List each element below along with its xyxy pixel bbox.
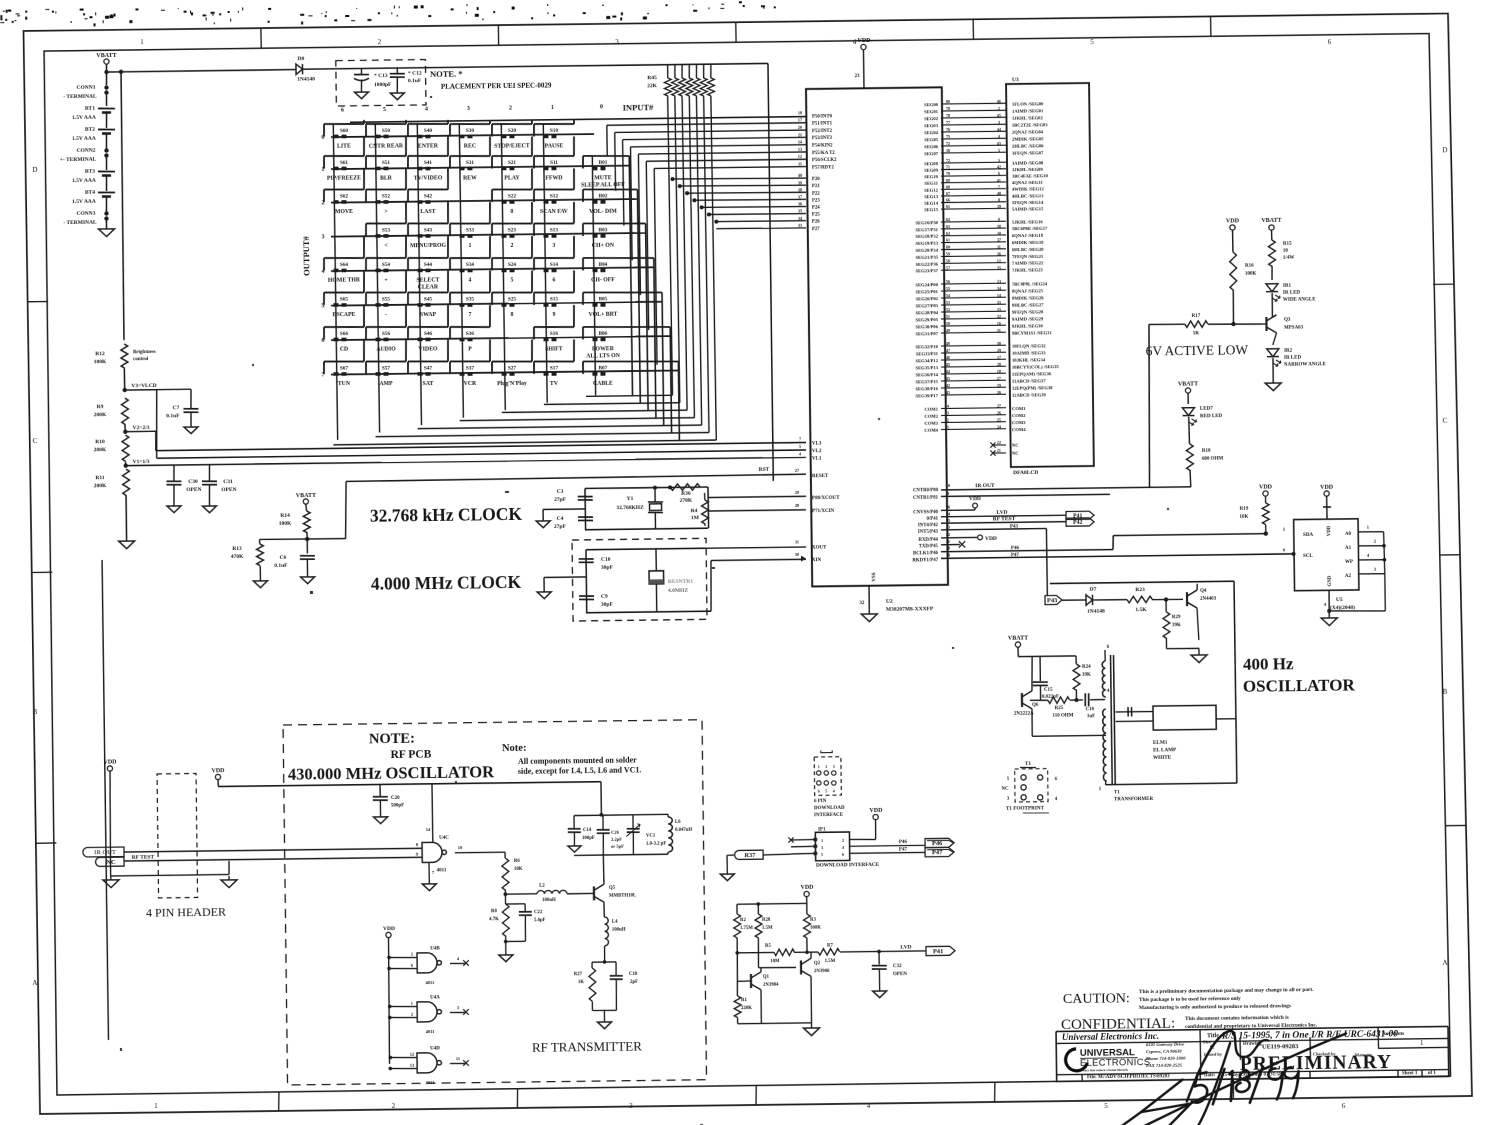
svg-text:1: 1 [411,1001,413,1006]
svg-text:5: 5 [825,789,827,793]
svg-text:S10: S10 [550,128,559,134]
node V3=VLCD [122,388,126,392]
svg-text:P27: P27 [812,227,820,232]
svg-text:100K: 100K [1245,272,1257,277]
svg-text:Q2: Q2 [814,961,821,966]
switch S11 FFWD [534,136,575,181]
svg-text:11: 11 [997,244,1001,249]
transistor Q6 2N2222A [1021,693,1023,707]
svg-text:P22: P22 [812,191,820,196]
svg-text:XOUT: XOUT [812,545,827,550]
svg-text:SEG27/P03: SEG27/P03 [916,303,939,308]
svg-text:SEG16/P30: SEG16/P30 [915,220,938,225]
svg-text:1uF: 1uF [1087,714,1095,719]
wire matrix column 1 vertical [543,124,547,403]
wire output net to MCU P20 [673,177,806,179]
svg-text:CAUTION:: CAUTION: [1063,991,1130,1007]
transformer core lines [1111,655,1113,785]
svg-text:27: 27 [795,468,799,473]
svg-text:R25: R25 [1055,706,1064,711]
svg-text:27: 27 [997,376,1001,381]
svg-text:C7: C7 [173,405,180,411]
resistor R29 39K [1165,600,1167,612]
wire matrix column 0 vertical [592,156,595,395]
svg-text:3: 3 [821,845,823,850]
switch S56 AUDIO [366,305,407,353]
pullup column 3 [688,65,690,78]
wire XCIN to MCU pin 28 [708,510,806,511]
svg-text:V3=VLCD: V3=VLCD [131,383,157,389]
svg-text:MUTE: MUTE [594,175,612,181]
svg-text:32.768KHZ: 32.768KHZ [616,505,644,511]
switch S30 REC [450,120,491,150]
transistor Q3 MPSA63 [1265,317,1267,331]
svg-text:7: 7 [998,184,1000,189]
svg-text:ESCAPE: ESCAPE [333,312,356,318]
svg-text:10JKHL /SEG34: 10JKHL /SEG34 [1012,357,1046,362]
svg-text:RXD/P44: RXD/P44 [918,538,938,543]
switch S54 + [366,236,407,284]
svg-text:2: 2 [509,105,512,111]
svg-text:P46: P46 [1011,546,1020,551]
svg-text:19: 19 [946,552,950,557]
wire RST line to MCU pin 27 [346,474,806,481]
IP1 left pin wires [791,839,815,842]
svg-text:HOME THR: HOME THR [328,277,361,283]
wire output net to MCU P21 [680,184,806,186]
svg-text:10K: 10K [514,867,523,872]
svg-text:SCAN FAV: SCAN FAV [540,209,569,215]
svg-text:VBATT: VBATT [1261,218,1281,224]
svg-text:R7: R7 [827,943,834,948]
svg-text:30pF: 30pF [601,602,614,608]
svg-text:CNTR1/P81: CNTR1/P81 [913,496,939,501]
handwritten date 5/18/99 [1191,1067,1298,1104]
Q6 emitter to transformer [1031,709,1033,736]
NAND gate U4B 4011 [417,953,437,973]
svg-text:SEG36/P14: SEG36/P14 [915,372,938,377]
wire staircase bottom 5 [376,433,709,437]
svg-text:P47: P47 [899,847,908,852]
wire staircase bottom 1 [544,403,680,405]
NAND gate U4C 4011 [422,842,442,862]
svg-text:TRANSFORMER: TRANSFORMER [1114,797,1154,802]
svg-text:VDD: VDD [1259,484,1273,490]
svg-text:B02: B02 [599,193,608,199]
svg-text:26: 26 [997,410,1001,415]
svg-text:20: 20 [798,125,802,130]
svg-text:76: 76 [946,127,950,132]
svg-text:26: 26 [997,390,1001,395]
svg-text:4: 4 [842,845,844,850]
svg-text:4.0MHZ: 4.0MHZ [668,588,688,594]
svg-text:NARROW ANGLE: NARROW ANGLE [1284,362,1327,368]
wire VL2 line from V3 [157,450,806,458]
svg-text:AUDIO: AUDIO [376,346,396,352]
resistor R6 10K [504,852,506,858]
IR LED IR1 wide angle [1266,284,1278,292]
EL loop bottom rail [1105,783,1236,785]
svg-text:1: 1 [140,38,144,46]
transistor Q2 2N3906 [800,960,802,974]
svg-text:R1: R1 [741,998,748,1003]
svg-text:0: 0 [600,104,603,110]
ground below RF output [597,1022,611,1029]
svg-text:S65: S65 [340,296,349,302]
svg-text:R19: R19 [1240,507,1249,512]
svg-text:SEG32/P10: SEG32/P10 [915,344,938,349]
microcontroller U2 M38207M8-XXXFP [805,37,948,622]
svg-text:T1 FOOTPRINT: T1 FOOTPRINT [1006,806,1045,812]
NAND gate U4A 4011 [417,1002,437,1022]
svg-text:RST: RST [759,467,770,473]
svg-text:IR LED: IR LED [1283,291,1301,296]
svg-text:VBATT: VBATT [1178,381,1198,387]
switch S21 PLAY [492,137,533,182]
svg-text:1FLON /SEG00: 1FLON /SEG00 [1012,101,1044,106]
svg-text:R24: R24 [1082,665,1091,670]
svg-text:COM2: COM2 [1012,413,1026,418]
svg-text:SEG12: SEG12 [924,187,939,192]
resistor R4 1M [701,500,708,524]
svg-text:CLEAR: CLEAR [418,284,439,290]
resistor R18 680 OHM [1186,444,1193,470]
svg-text:1JKHL /SEG02: 1JKHL /SEG02 [1012,115,1044,120]
svg-text:CABLE: CABLE [593,381,613,387]
svg-text:SDA: SDA [1303,533,1313,538]
svg-text:SEG34/P12: SEG34/P12 [916,358,939,363]
svg-text:6: 6 [552,278,555,284]
svg-text:1: 1 [469,243,472,249]
capacitor C20 500pF [379,784,381,796]
svg-text:S45: S45 [424,296,433,302]
svg-text:S50: S50 [382,128,391,134]
svg-text:100K: 100K [94,359,107,365]
svg-text:IR LED: IR LED [1284,356,1302,361]
svg-text:A: A [32,979,37,987]
svg-text:MOVE: MOVE [335,209,353,215]
svg-text:R15: R15 [1283,242,1292,247]
svg-text:27pF: 27pF [554,497,567,503]
svg-text:SEG38/P16: SEG38/P16 [915,386,938,391]
switch S27 Plug'N'Play [492,340,533,388]
svg-text:P71/XCIN: P71/XCIN [812,509,835,514]
svg-text:44: 44 [946,369,950,374]
svg-text:1/4W: 1/4W [1283,256,1294,261]
switch S65 ESCAPE [324,271,365,319]
wire channel vertical 5 [638,154,640,295]
svg-text:1: 1 [947,424,949,429]
svg-text:4WDIK /SEG12: 4WDIK /SEG12 [1012,186,1045,191]
RF tank top rail [574,814,668,815]
svg-text:SEG24/P00: SEG24/P00 [915,282,938,287]
svg-text:37: 37 [798,194,802,199]
svg-text:+- TERMINAL: +- TERMINAL [60,157,97,163]
svg-text:or 5pF: or 5pF [611,844,624,849]
wire VL3 line from V2 [156,442,806,450]
capacitor C30 OPEN [173,465,175,481]
wire matrix row0 top rail to MCU P50 [350,117,806,123]
switch S35 7 [450,271,491,319]
EL loop right rail [1234,581,1237,783]
svg-text:U4A: U4A [430,995,440,1000]
svg-text:18: 18 [997,369,1001,374]
svg-text:3AIMD /SEG08: 3AIMD /SEG08 [1012,160,1044,165]
svg-text:P42: P42 [1073,520,1082,526]
MCU VSS ground [868,587,870,614]
svg-text:22: 22 [946,532,950,537]
4MHz dashed box [572,538,707,621]
EL lamp ELM1 box [1153,705,1216,730]
wire VBATT top rail [104,70,108,74]
switch S25 8 [492,271,533,319]
wire rail drop to RST line [768,63,773,481]
svg-text:2.2pF: 2.2pF [611,837,622,842]
svg-text:+: + [384,277,387,283]
svg-text:VSS: VSS [872,572,877,581]
svg-text:S67: S67 [340,365,349,371]
svg-text:DOWNLOAD INTERFACE: DOWNLOAD INTERFACE [816,862,880,869]
wire matrix row 7 line [331,370,678,375]
wire channel vertical 4 [630,147,632,260]
svg-text:5: 5 [799,444,801,449]
switch S17 TV [534,339,575,387]
svg-text:CH+ ON: CH+ ON [592,243,615,249]
capacitor C15 0.022uF [1039,656,1041,681]
resistor R16 100K [1230,252,1237,290]
wire XIN to MCU pin 30 [710,560,711,611]
trimmer capacitor VC1 [632,815,634,828]
svg-text:S35: S35 [466,296,475,302]
svg-text:U4B: U4B [430,946,440,951]
wire input row net 5 to MCU P55 [638,152,806,154]
wire staircase bottom 4 [418,425,702,429]
svg-text:4: 4 [853,38,857,46]
capacitor C4 27pF [578,516,593,518]
svg-text:S13: S13 [550,227,559,233]
svg-text:2: 2 [998,106,1000,111]
diode D8 1N4148 [296,64,303,74]
svg-text:V1=1/3: V1=1/3 [133,459,150,465]
resistor R23 1.5K [1127,596,1152,603]
svg-text:9: 9 [947,491,949,496]
svg-text:U3: U3 [1012,77,1019,83]
LVD middle row with R5 10M and R7 1.5M [736,938,738,953]
tag P43 into D7 [1045,595,1062,604]
svg-text:WHITE: WHITE [1153,755,1172,761]
svg-text:POWER: POWER [592,346,615,352]
node V1=1/3 [124,463,128,467]
svg-text:10K: 10K [1240,515,1249,520]
svg-text:R36: R36 [681,491,691,497]
svg-text:S51: S51 [382,160,391,166]
ground below battery stack [98,229,114,237]
svg-text:SEG23/P37: SEG23/P37 [915,268,938,273]
LVD top rail [737,902,807,905]
LCD connector U3 DFA8LCD [1006,83,1094,467]
svg-text:COM1: COM1 [924,407,938,412]
svg-text:TXD/P45: TXD/P45 [919,544,939,549]
svg-text:T1: T1 [1025,761,1032,767]
svg-text:1: 1 [821,838,823,843]
Q6 collector to rail [1032,656,1033,691]
svg-text:P54/KIN2: P54/KIN2 [812,143,833,148]
svg-text:VOL- DIM: VOL- DIM [589,209,617,215]
wire matrix column 5 vertical [375,124,379,433]
svg-text:2: 2 [511,243,514,249]
svg-text:Q6: Q6 [1032,703,1039,708]
svg-text:S47: S47 [424,365,433,371]
svg-text:COM1: COM1 [1012,406,1026,411]
svg-text:75: 75 [946,134,950,139]
switch S15 9 [534,270,575,318]
Q6 oscillator top rail [1018,655,1076,658]
svg-text:RESNTR1: RESNTR1 [668,579,693,585]
svg-text:CONN2: CONN2 [76,148,95,154]
svg-text:6: 6 [998,171,1000,176]
svg-text:0.022uF: 0.022uF [1042,695,1059,700]
svg-text:45: 45 [946,362,950,367]
svg-text:VDD: VDD [857,38,871,44]
wire XCOUT to MCU pin 29 [708,496,806,497]
svg-text:R37: R37 [744,852,755,859]
svg-text:C30: C30 [188,479,198,485]
svg-text:1.75M: 1.75M [740,926,753,931]
svg-text:WP: WP [1345,560,1353,565]
svg-text:SEG13: SEG13 [924,194,939,199]
svg-text:6HLBC /SEG20: 6HLBC /SEG20 [1012,247,1044,252]
svg-text:C18: C18 [629,972,638,977]
svg-text:40: 40 [997,191,1001,196]
svg-text:26: 26 [946,504,950,509]
svg-text:4: 4 [947,403,949,408]
svg-text:INT5/P43: INT5/P43 [918,530,939,535]
svg-text:Universal Electronics Inc.: Universal Electronics Inc. [1062,1031,1159,1042]
svg-text:11: 11 [456,1056,460,1061]
svg-text:4011: 4011 [426,1029,436,1034]
svg-text:PRELIMINARY: PRELIMINARY [1240,1052,1392,1075]
svg-text:S25: S25 [508,296,517,302]
svg-text:C6: C6 [280,555,287,561]
svg-text:6: 6 [842,852,844,857]
wire R17 to IR OUT line [1147,324,1151,487]
svg-text:D: D [1442,146,1447,154]
resistor R12 100K brightness [121,344,128,368]
svg-text:4: 4 [867,1102,871,1110]
svg-text:R29: R29 [1172,615,1181,620]
svg-text:30: 30 [997,341,1001,346]
svg-text:B01: B01 [599,160,608,166]
svg-text:RF TRANSMITTER: RF TRANSMITTER [532,1038,642,1054]
svg-text:P24: P24 [812,206,820,211]
svg-text:REW: REW [463,175,477,181]
resistor R10 200K [122,435,129,461]
svg-text:C22: C22 [534,910,543,915]
svg-text:100K: 100K [279,521,292,527]
svg-text:22K: 22K [647,83,658,89]
svg-text:0/P41: 0/P41 [927,517,939,522]
svg-text:7JKHL /SEG23: 7JKHL /SEG23 [1012,267,1044,272]
svg-text:15: 15 [997,307,1001,312]
svg-text:MENU/PROG: MENU/PROG [410,243,447,249]
svg-text:4: 4 [833,789,835,793]
svg-text:LITE: LITE [337,143,351,149]
svg-text:C3: C3 [557,489,564,495]
resistor R19 10K [1262,503,1269,525]
svg-text:2pF: 2pF [630,980,638,985]
switch S37 VCR [450,340,491,388]
svg-text:R16: R16 [1245,264,1254,269]
svg-text:12EPQ(PM) /SEG38: 12EPQ(PM) /SEG38 [1012,385,1053,391]
wire channel vertical 7 [654,168,657,364]
svg-text:Q5: Q5 [609,886,616,891]
svg-text:R13: R13 [232,546,242,552]
svg-text:S60: S60 [340,128,349,134]
svg-text:39K: 39K [1082,673,1091,678]
svg-text:1.5K: 1.5K [1135,607,1147,613]
svg-text:SEG21/P35: SEG21/P35 [916,255,939,260]
wire reset node [260,538,346,539]
svg-text:50: 50 [946,321,950,326]
ground below R8 [499,955,513,962]
svg-text:2MDIK /SEG05: 2MDIK /SEG05 [1012,136,1044,141]
switch B01 MUTE SLEEP ALL OFF [581,155,633,395]
svg-text:100pF: 100pF [582,836,595,841]
svg-text:C10: C10 [601,557,611,563]
svg-text:S42: S42 [424,193,433,199]
svg-text:23: 23 [946,524,950,529]
tag NC RF TEST [95,857,124,866]
svg-text:S52: S52 [382,193,391,199]
svg-text:C26: C26 [611,830,620,835]
svg-text:14: 14 [997,293,1001,298]
wire staircase bottom 3 [460,418,695,421]
svg-text:P41: P41 [933,948,944,955]
svg-text:4 PIN HEADER: 4 PIN HEADER [146,905,226,920]
svg-text:U2: U2 [886,599,893,605]
svg-text:57: 57 [946,265,950,270]
switch S50 CNTR REAR [366,120,407,150]
svg-text:100uH: 100uH [612,928,626,933]
placement note dashed box [336,60,426,107]
RC pair R27 1K C18 2pF [592,961,616,963]
svg-text:2: 2 [842,838,844,843]
svg-text:60: 60 [946,245,950,250]
svg-text:61: 61 [946,238,950,243]
svg-text:30pF: 30pF [601,565,614,571]
svg-text:4011: 4011 [426,1080,436,1085]
svg-text:SEG17/P31: SEG17/P31 [915,227,938,232]
svg-text:VDD: VDD [1226,218,1240,224]
svg-text:RF PCB: RF PCB [390,749,431,762]
capacitor C31 OPEN [208,464,210,481]
svg-text:SEG00: SEG00 [924,102,939,107]
svg-text:10: 10 [1283,249,1289,254]
svg-text:1M: 1M [691,515,700,521]
svg-text:B03: B03 [599,227,608,233]
wire XOUT to MCU pin 31 [706,547,806,548]
svg-text:5: 5 [411,952,413,957]
svg-text:R11: R11 [95,475,104,481]
Q1 2N3904 [757,938,760,968]
svg-text:PLACEMENT PER UEI SPEC-0029: PLACEMENT PER UEI SPEC-0029 [441,82,552,91]
svg-text:400 Hz: 400 Hz [1243,654,1294,674]
svg-text:70: 70 [946,171,950,176]
svg-text:VIDEO: VIDEO [418,346,438,352]
svg-text:3: 3 [457,1005,459,1010]
svg-text:SEG03: SEG03 [924,123,939,128]
svg-text:VL3: VL3 [812,442,822,447]
